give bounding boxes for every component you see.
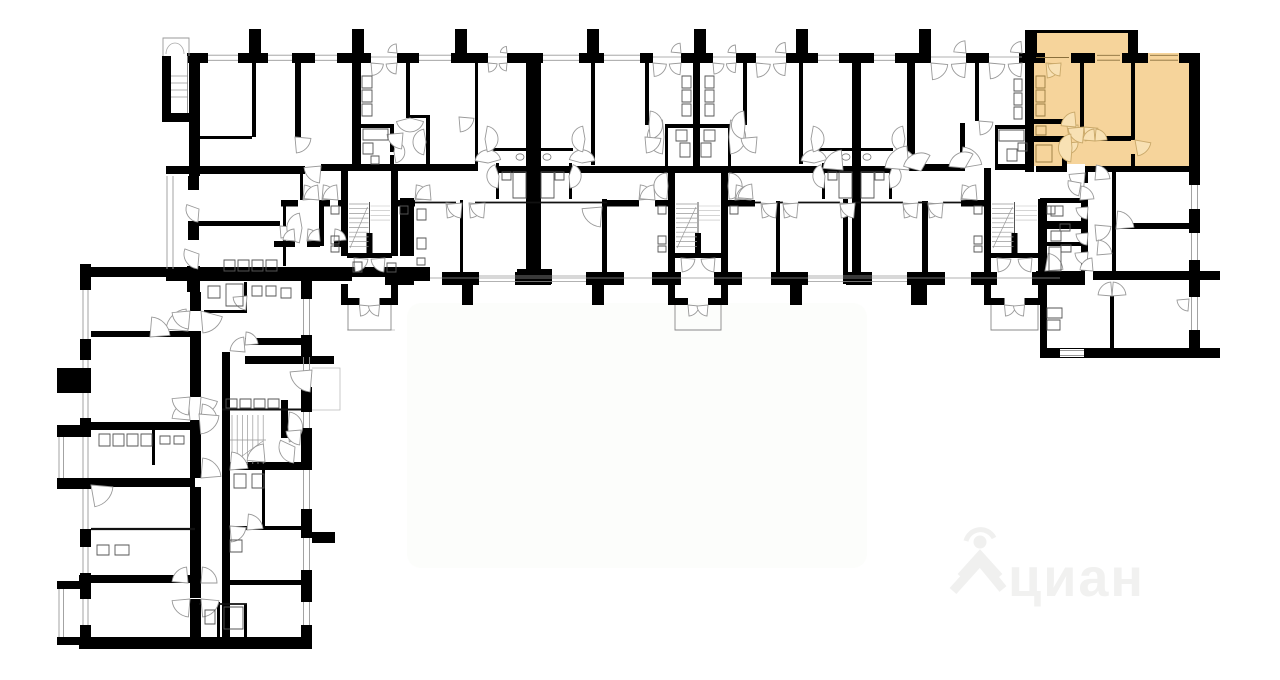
svg-text:циан: циан — [1008, 548, 1145, 608]
